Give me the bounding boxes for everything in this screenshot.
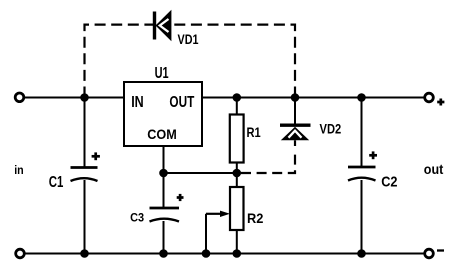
svg-text:C1: C1 <box>49 174 64 191</box>
svg-text:out: out <box>424 161 444 177</box>
svg-text:OUT: OUT <box>169 94 194 111</box>
svg-text:in: in <box>14 163 24 177</box>
svg-text:R1: R1 <box>247 124 261 140</box>
svg-text:IN: IN <box>131 94 144 111</box>
svg-text:C3: C3 <box>130 211 144 225</box>
svg-text:COM: COM <box>147 126 177 142</box>
svg-text:VD2: VD2 <box>320 122 342 138</box>
svg-text:C2: C2 <box>381 174 397 191</box>
svg-text:VD1: VD1 <box>178 31 199 47</box>
svg-text:U1: U1 <box>155 65 169 82</box>
svg-text:R2: R2 <box>247 210 264 226</box>
